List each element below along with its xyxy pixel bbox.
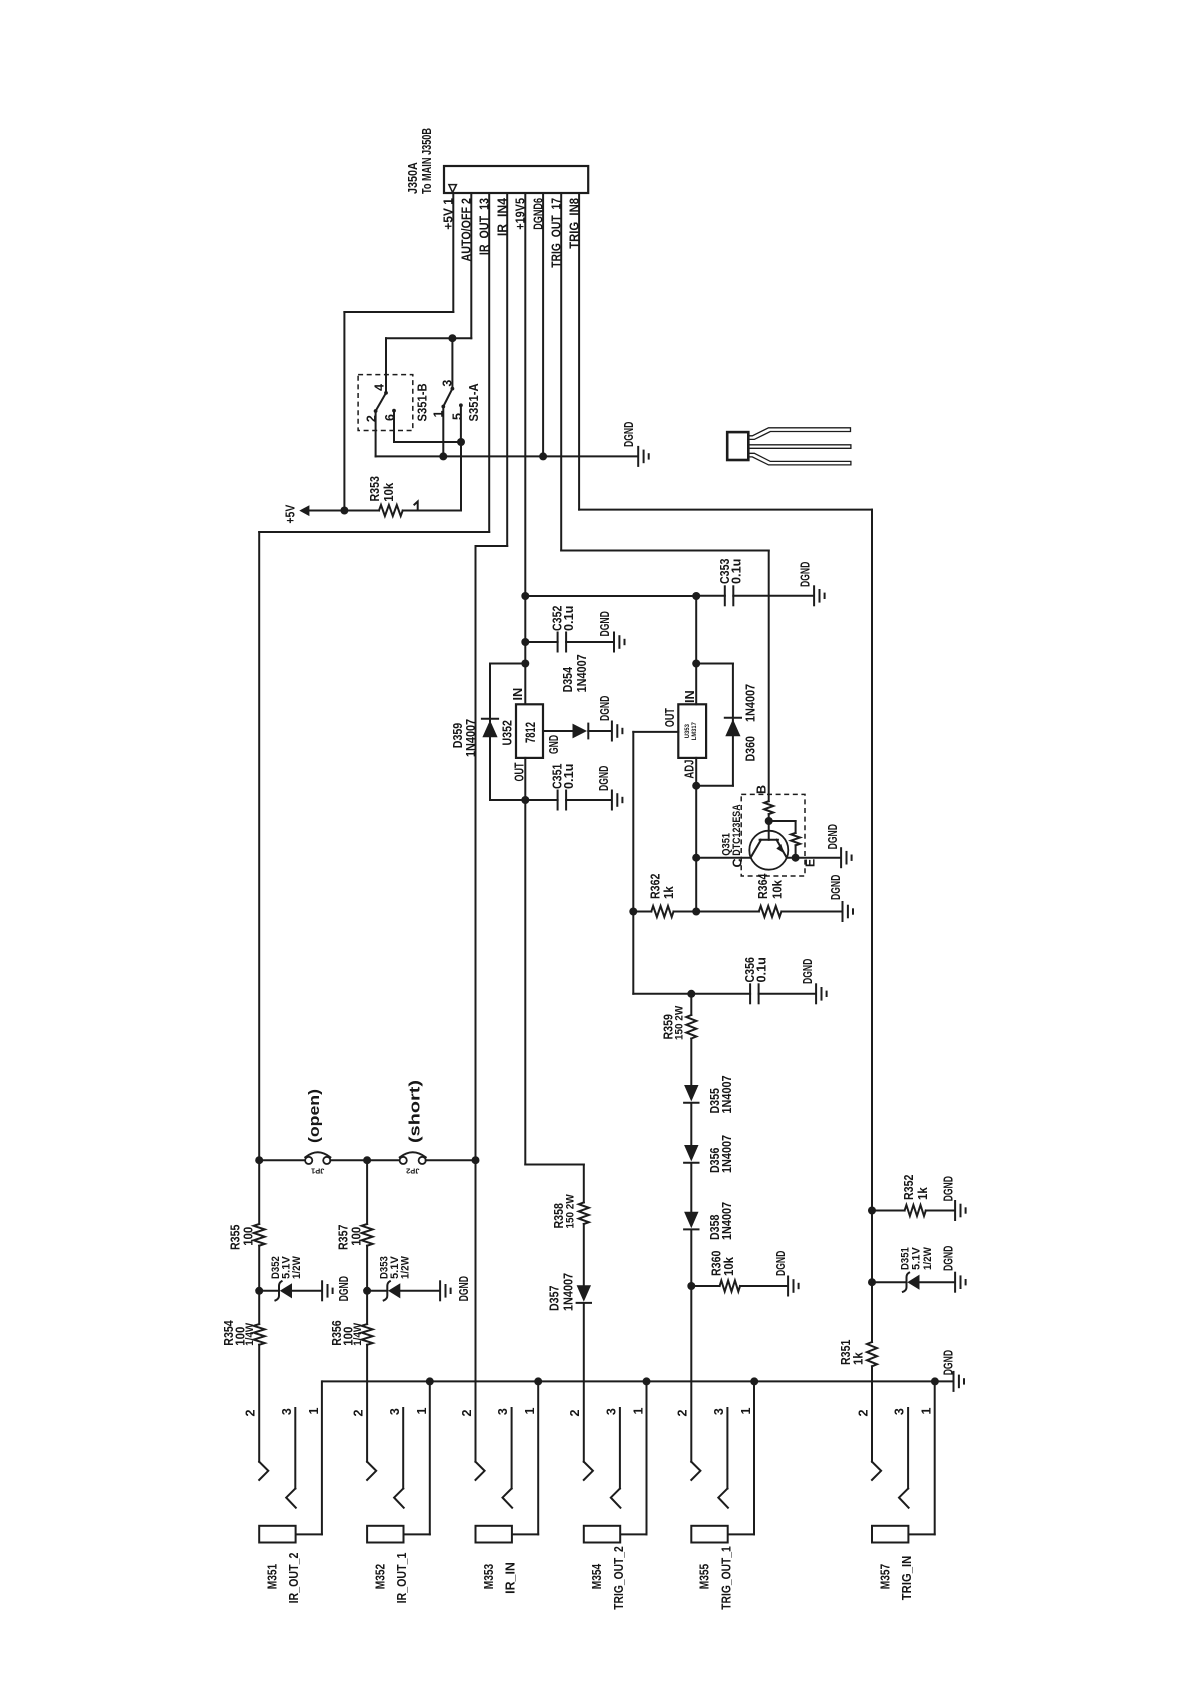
wire S351-B pin6: [393, 411, 395, 442]
svg-text:IN: IN: [683, 690, 697, 703]
svg-text:1k: 1k: [852, 1352, 866, 1365]
svg-text:M352: M352: [373, 1564, 387, 1589]
svg-text:1N4007: 1N4007: [464, 719, 478, 757]
connector M353 IR_IN phone jack: [476, 1462, 485, 1480]
svg-text:+19V5: +19V5: [514, 198, 528, 230]
svg-text:5.1V: 5.1V: [911, 1247, 923, 1270]
resistor R351 1k: [867, 1342, 877, 1366]
connector J350A To MAIN J350B: [444, 166, 588, 193]
wire +19V branch: [525, 595, 696, 597]
svg-text:S351-B: S351-B: [415, 383, 429, 421]
ground DGND C352: [613, 633, 615, 652]
zener diode D353 5.1V 1/2W: [367, 1290, 387, 1292]
wire U353 OUT pin: [633, 731, 678, 733]
wire D352 node to R354: [258, 1291, 260, 1324]
svg-text:E: E: [804, 859, 818, 867]
connector pin wire TRIG_OUT_17: [560, 193, 562, 551]
ground DGND bus: [637, 447, 639, 466]
wire JP node to R357: [366, 1160, 368, 1224]
svg-text:3: 3: [893, 1408, 907, 1415]
svg-text:1: 1: [632, 1407, 646, 1414]
svg-text:+5V: +5V: [284, 504, 298, 524]
svg-text:R353: R353: [368, 476, 382, 501]
ground DGND Q351 emitter: [840, 848, 842, 867]
svg-text:2: 2: [676, 1409, 690, 1416]
resistor R359 150 2W: [690, 994, 692, 1015]
svg-text:U353: U353: [684, 723, 691, 738]
svg-text:+5V 1: +5V 1: [442, 198, 456, 230]
svg-text:R364: R364: [756, 874, 770, 899]
wire R353 to S351-A pin5: [460, 442, 462, 511]
svg-text:U352: U352: [500, 720, 514, 745]
resistor R352 1k: [872, 1210, 905, 1212]
transistor package drawing TO-92: [727, 432, 748, 460]
connector M355 TRIG_OUT_1 phone jack: [691, 1462, 700, 1480]
wire JP1 to JP2: [330, 1159, 399, 1161]
svg-text:3: 3: [388, 1408, 402, 1415]
resistor R364 10k: [696, 911, 759, 913]
svg-text:1/2W: 1/2W: [922, 1247, 934, 1270]
resistor R356 100 1/4W: [362, 1324, 373, 1345]
ground DGND D354: [611, 722, 613, 741]
ground DGND C356: [815, 984, 817, 1003]
svg-text:JP2: JP2: [406, 1166, 419, 1175]
diode D355 1N4007: [684, 1085, 698, 1102]
connector M352 IR_OUT_1 phone jack: [367, 1462, 376, 1480]
svg-text:DGND: DGND: [457, 1276, 471, 1301]
wire AUTO/OFF net: [386, 337, 471, 339]
svg-text:(open): (open): [306, 1089, 323, 1143]
voltage regulator U353 LM317: [678, 704, 706, 758]
switch S351-A: [443, 389, 452, 407]
wire JP1 node to R355: [258, 1160, 260, 1224]
resistor R358 150 2W: [583, 1165, 585, 1203]
svg-text:TRIG_IN8: TRIG_IN8: [568, 198, 582, 249]
svg-text:DGND: DGND: [774, 1251, 788, 1276]
svg-text:DGND: DGND: [337, 1276, 351, 1301]
svg-text:DGND: DGND: [942, 1350, 956, 1375]
wire output rail to C356 node: [633, 993, 691, 995]
svg-text:R352: R352: [902, 1175, 916, 1200]
wire TRIG_IN net: [579, 509, 872, 511]
svg-text:ADJ: ADJ: [683, 760, 697, 779]
diode D356 1N4007: [684, 1145, 698, 1162]
svg-text:2: 2: [568, 1409, 582, 1416]
svg-text:10k: 10k: [771, 880, 785, 899]
svg-text:IR_OUT_13: IR_OUT_13: [478, 198, 492, 255]
svg-text:M357: M357: [878, 1564, 892, 1589]
svg-text:100: 100: [349, 1227, 363, 1246]
wire U353 ADJ pin: [695, 758, 697, 912]
svg-text:M354: M354: [590, 1564, 604, 1589]
svg-text:IR_IN: IR_IN: [504, 1562, 518, 1594]
svg-text:D359: D359: [451, 723, 465, 748]
svg-text:0.1u: 0.1u: [729, 559, 743, 584]
wire R357 to D353 node: [366, 1246, 368, 1291]
node U352 IN junctions: [521, 638, 529, 646]
wire S351-A pin5: [460, 405, 462, 442]
connector pin wire IR_OUT_13: [488, 193, 490, 532]
resistor R354 100 1/4W: [254, 1324, 265, 1345]
node pin6/pin5 junction: [457, 438, 465, 446]
connector pin wire TRIG_IN8: [578, 193, 580, 510]
wire D353 node to R356: [366, 1291, 368, 1324]
svg-text:M351: M351: [266, 1564, 280, 1589]
diode D359 1N4007 around U352: [490, 663, 525, 665]
node R360 junction: [687, 1282, 695, 1290]
svg-text:1/4W: 1/4W: [352, 1322, 364, 1345]
ground DGND R364: [842, 902, 844, 921]
node JP2 right junction: [472, 1156, 480, 1164]
wire S351-A pin1 to DGND bus: [442, 407, 444, 457]
svg-text:To MAIN J350B: To MAIN J350B: [420, 128, 434, 194]
svg-text:0.1u: 0.1u: [754, 957, 768, 982]
wire S351-B pin2 to DGND bus: [375, 411, 377, 456]
svg-text:10k: 10k: [722, 1257, 736, 1276]
wire R356 to M352 tip: [366, 1345, 368, 1462]
node JP1 left junction: [255, 1156, 263, 1164]
svg-text:TRIG_OUT_1: TRIG_OUT_1: [719, 1546, 733, 1610]
svg-text:3: 3: [605, 1408, 619, 1415]
wire DGND bus: [376, 455, 638, 457]
node AUTO/OFF junction to S351-A pin3: [448, 334, 456, 342]
wire +12V rail to R358: [524, 800, 526, 1165]
wire bottom DGND bus: [323, 1380, 953, 1382]
svg-text:DGND: DGND: [598, 611, 612, 636]
capacitor C353 0.1u: [696, 595, 725, 597]
wire Q351 collector: [696, 857, 750, 859]
svg-text:1/2W: 1/2W: [400, 1256, 412, 1279]
ground DGND D351: [954, 1273, 956, 1292]
svg-text:1: 1: [920, 1407, 934, 1414]
node R362 left junction: [629, 908, 637, 916]
resistor R360 10k: [691, 1285, 719, 1287]
svg-text:S351-A: S351-A: [467, 383, 481, 421]
resistor R357 100: [362, 1224, 373, 1246]
node R362/R364 junction: [692, 908, 700, 916]
node D353 junction: [363, 1287, 371, 1295]
zener diode D351 5.1V 1/2W: [872, 1281, 907, 1283]
svg-text:1N4007: 1N4007: [744, 684, 758, 722]
connector pin wire AUTO/OFF 2: [470, 193, 472, 338]
diode D354 1N4007: [573, 724, 588, 739]
connector pin wire IR_IN4: [506, 193, 508, 546]
svg-text:LM317: LM317: [691, 722, 698, 741]
svg-text:DGND: DGND: [829, 875, 843, 900]
svg-text:1/4W: 1/4W: [244, 1322, 256, 1345]
svg-text:2: 2: [460, 1409, 474, 1416]
svg-text:1N4007: 1N4007: [720, 1202, 734, 1240]
svg-text:IR_IN4: IR_IN4: [496, 198, 510, 236]
svg-text:2: 2: [352, 1409, 366, 1416]
svg-text:1N4007: 1N4007: [720, 1135, 734, 1173]
svg-text:D357: D357: [548, 1286, 562, 1311]
transistor Q351 DTC123ESA: [741, 794, 805, 876]
svg-text:1k: 1k: [916, 1187, 930, 1200]
voltage regulator U352 7812: [516, 704, 543, 758]
svg-text:JP1: JP1: [311, 1166, 324, 1175]
svg-text:1/2W: 1/2W: [291, 1256, 303, 1279]
svg-text:D360: D360: [744, 736, 758, 761]
svg-text:2: 2: [244, 1409, 258, 1416]
svg-text:150 2W: 150 2W: [565, 1194, 577, 1229]
wire IR_OUT net: [259, 531, 489, 533]
resistor R362 1k: [633, 911, 651, 913]
svg-text:R362: R362: [648, 874, 662, 899]
connector pin wire +5V 1: [452, 193, 454, 312]
svg-text:DGND: DGND: [942, 1246, 956, 1271]
ground DGND R352: [954, 1201, 956, 1220]
jumper JP2 (short): [400, 1157, 407, 1164]
svg-text:3: 3: [712, 1408, 726, 1415]
diode D358 1N4007: [684, 1212, 698, 1229]
svg-text:1N4007: 1N4007: [720, 1075, 734, 1113]
node D352 junction: [255, 1287, 263, 1295]
svg-text:(short): (short): [407, 1080, 424, 1143]
node +5V junction: [340, 507, 348, 515]
svg-text:2: 2: [856, 1409, 870, 1416]
svg-text:0.1u: 0.1u: [562, 606, 576, 631]
svg-text:10k: 10k: [382, 483, 396, 502]
svg-text:DGND6: DGND6: [532, 198, 546, 230]
svg-text:DTC123ESA: DTC123ESA: [731, 804, 743, 855]
svg-text:M353: M353: [482, 1564, 496, 1589]
svg-text:DGND: DGND: [622, 422, 636, 447]
resistor R353 10k: [344, 510, 379, 512]
wire IR_IN net: [476, 545, 508, 547]
ground DGND D353: [439, 1281, 441, 1300]
+5V power symbol: [299, 505, 309, 516]
svg-text:DGND: DGND: [598, 696, 612, 721]
svg-text:DGND: DGND: [801, 959, 815, 984]
svg-text:AUTO/OFF 2: AUTO/OFF 2: [460, 198, 474, 262]
svg-text:100: 100: [242, 1227, 256, 1246]
svg-text:M355: M355: [698, 1564, 712, 1589]
svg-text:IN: IN: [511, 688, 525, 701]
svg-text:DGND: DGND: [799, 562, 813, 587]
svg-text:5: 5: [450, 413, 464, 420]
ground DGND C353: [813, 586, 815, 605]
svg-text:D354: D354: [561, 667, 575, 692]
svg-text:TRIG_IN: TRIG_IN: [900, 1556, 914, 1600]
node C356 junction: [687, 990, 695, 998]
ground DGND D352: [321, 1281, 323, 1300]
svg-text:B: B: [755, 785, 769, 794]
connector M351 IR_OUT_2 phone jack: [259, 1462, 268, 1480]
diode D357 1N4007: [577, 1285, 591, 1302]
svg-text:1: 1: [739, 1407, 753, 1414]
svg-text:IR_OUT_1: IR_OUT_1: [395, 1553, 409, 1604]
wire JP2 to IR_IN line: [426, 1159, 476, 1161]
switch S351-B: [358, 375, 413, 431]
svg-text:DGND: DGND: [597, 766, 611, 791]
connector M357 TRIG_IN phone jack: [872, 1462, 881, 1480]
jumper JP1 (open): [259, 1159, 305, 1161]
capacitor C351 0.1u: [525, 799, 557, 801]
ground DGND R360: [787, 1277, 789, 1296]
wire U353 IN: [695, 596, 697, 704]
connector pin wire DGND6: [542, 193, 544, 456]
wire TRIG_OUT net: [561, 550, 769, 552]
svg-text:1: 1: [415, 1407, 429, 1414]
node R352 junction: [868, 1207, 876, 1215]
ground DGND bottom bus: [953, 1372, 955, 1391]
zener diode D352 5.1V 1/2W: [259, 1290, 279, 1292]
svg-text:4: 4: [373, 384, 387, 391]
ground DGND C351: [611, 791, 613, 810]
svg-text:TRIG_OUT_17: TRIG_OUT_17: [550, 198, 564, 268]
capacitor C356 0.1u: [691, 993, 750, 995]
svg-text:7812: 7812: [522, 722, 538, 743]
wire U352 OUT pin: [524, 758, 526, 800]
svg-text:1: 1: [523, 1407, 537, 1414]
svg-text:C: C: [730, 858, 744, 867]
node U352 OUT junction: [521, 796, 529, 804]
svg-text:3: 3: [280, 1408, 294, 1415]
svg-text:IR_OUT_2: IR_OUT_2: [287, 1553, 301, 1604]
node D360 top junction: [692, 660, 700, 668]
capacitor C352 0.1u: [525, 641, 557, 643]
svg-text:3: 3: [496, 1408, 510, 1415]
svg-text:1N4007: 1N4007: [561, 1273, 575, 1311]
svg-text:TRIG_OUT_2: TRIG_OUT_2: [612, 1546, 626, 1610]
wire +5V net: [344, 311, 453, 313]
svg-text:J350A: J350A: [406, 162, 420, 194]
resistor R355 100: [254, 1224, 265, 1246]
node D351 junction: [868, 1278, 876, 1286]
connector pin wire +19V5: [524, 193, 526, 704]
diode D360 1N4007 around U353: [696, 663, 733, 665]
svg-text:DGND: DGND: [826, 824, 840, 849]
svg-text:DGND: DGND: [942, 1176, 956, 1201]
svg-text:150 2W: 150 2W: [674, 1005, 686, 1040]
node R357 junction: [363, 1156, 371, 1164]
wire R355 to D352 node: [258, 1246, 260, 1291]
connector M354 TRIG_OUT_2 phone jack: [584, 1462, 593, 1480]
wire U352 GND pin: [543, 730, 573, 732]
wire Q351 emitter to ground: [787, 857, 841, 859]
svg-text:0.1u: 0.1u: [562, 764, 576, 789]
svg-text:GND: GND: [547, 735, 561, 754]
svg-text:3: 3: [440, 380, 454, 387]
node ADJ junction: [692, 782, 700, 790]
svg-text:1N4007: 1N4007: [575, 654, 589, 692]
svg-text:OUT: OUT: [663, 708, 677, 727]
svg-text:1: 1: [307, 1407, 321, 1414]
svg-text:1k: 1k: [662, 886, 676, 899]
wire R354 to M351 tip: [258, 1345, 260, 1462]
